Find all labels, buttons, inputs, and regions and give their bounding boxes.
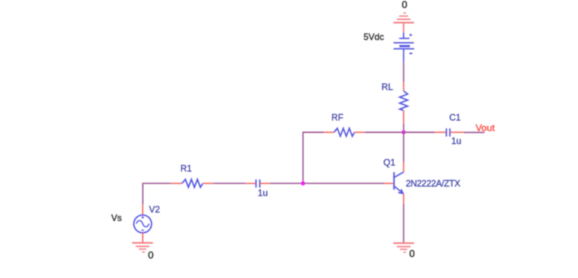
capacitor C1 pin left	[435, 131, 446, 133]
wire input corner down to V2	[143, 183, 171, 204]
resistor RL pin top	[403, 82, 405, 91]
wire battery to RL	[403, 62, 405, 83]
node junction collector (dot)	[402, 130, 406, 134]
wire collector node to C1	[404, 131, 435, 133]
svg-text:C1: C1	[449, 113, 461, 123]
resistor RL body	[400, 91, 408, 111]
capacitor C2 pin left	[246, 182, 256, 184]
transistor Q1 emitter pin	[403, 194, 405, 204]
source V2 body (sine source)	[134, 215, 152, 233]
wire RF to collector node	[365, 131, 404, 133]
capacitor C1 body	[446, 128, 450, 136]
svg-text:Q1: Q1	[383, 157, 395, 167]
transistor Q1 body	[394, 172, 404, 194]
wire C2 to base node	[270, 182, 303, 184]
svg-text:2N2222A/ZTX: 2N2222A/ZTX	[406, 178, 461, 188]
svg-text:Vout: Vout	[476, 123, 495, 134]
ground GND source	[132, 243, 153, 252]
resistor RF pin left	[324, 131, 334, 133]
source V2 pin bottom	[142, 233, 144, 243]
svg-text:5Vdc: 5Vdc	[363, 32, 384, 42]
source V2 pin top	[142, 205, 144, 215]
resistor RF pin right	[355, 131, 365, 133]
capacitor C1 pin right	[450, 131, 463, 133]
resistor R1 body	[182, 179, 203, 187]
resistor RL pin bottom	[403, 110, 405, 123]
node junction base (dot)	[301, 181, 305, 185]
svg-text:1u: 1u	[258, 188, 268, 198]
resistor R1 pin right	[203, 182, 213, 184]
svg-text:V2: V2	[149, 204, 160, 214]
svg-text:0: 0	[402, 0, 408, 11]
svg-text:Vs: Vs	[111, 213, 122, 223]
wire Q1 emitter to ground	[403, 204, 405, 243]
svg-text:0: 0	[409, 249, 415, 260]
resistor R1 pin left	[171, 182, 182, 184]
svg-text:R1: R1	[180, 163, 192, 173]
wire RL to collector node	[403, 123, 405, 132]
wire base node to Q1	[303, 182, 385, 184]
transistor Q1 collector pin	[403, 162, 405, 172]
svg-text:0: 0	[148, 250, 154, 261]
svg-text:RL: RL	[381, 82, 393, 92]
wire RF left (corner to resistor)	[303, 132, 324, 183]
capacitor C2 body	[256, 180, 260, 188]
resistor RF body	[334, 128, 355, 136]
dc source V1 battery 5Vdc	[394, 32, 415, 61]
transistor Q1 base pin	[385, 182, 394, 184]
wire C1 to Vout	[464, 131, 485, 133]
ground GND top (flipped, on +5V rail)	[393, 13, 414, 32]
wire collector node to Q1 collector	[403, 132, 405, 162]
capacitor C2 pin right	[260, 182, 270, 184]
svg-text:RF: RF	[331, 113, 343, 123]
svg-text:1u: 1u	[451, 136, 461, 146]
wire R1 to C2	[213, 182, 245, 184]
ground GND emitter	[393, 243, 414, 252]
